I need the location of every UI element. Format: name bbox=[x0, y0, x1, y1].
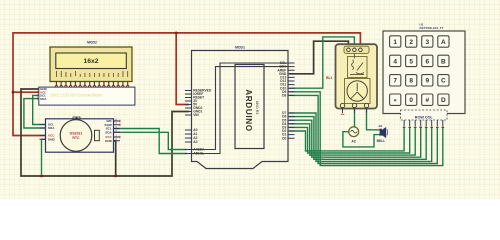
svg-text:A: A bbox=[441, 39, 446, 46]
svg-text:BELL: BELL bbox=[377, 139, 386, 143]
svg-text:0: 0 bbox=[409, 97, 413, 104]
svg-text:2: 2 bbox=[409, 39, 413, 46]
svg-text:5: 5 bbox=[409, 58, 413, 65]
svg-text:RTC: RTC bbox=[72, 136, 80, 140]
svg-text:KEYPAD-4X4_TT: KEYPAD-4X4_TT bbox=[420, 26, 444, 30]
svg-text:MOD1: MOD1 bbox=[235, 45, 245, 49]
svg-text:GND: GND bbox=[48, 138, 56, 142]
svg-text:B: B bbox=[441, 58, 446, 65]
svg-text:GND: GND bbox=[105, 139, 113, 143]
svg-text:6: 6 bbox=[425, 58, 429, 65]
svg-text:AC: AC bbox=[351, 140, 356, 144]
svg-text:SDA: SDA bbox=[48, 126, 55, 130]
svg-text:3: 3 bbox=[425, 39, 429, 46]
svg-text:ROW COL: ROW COL bbox=[415, 115, 434, 119]
svg-text:SDA: SDA bbox=[40, 97, 47, 101]
svg-text:8: 8 bbox=[409, 78, 413, 85]
svg-text:16x2: 16x2 bbox=[83, 58, 98, 65]
svg-text:C: C bbox=[441, 78, 446, 85]
svg-text:D8: D8 bbox=[282, 94, 286, 98]
svg-text:DS3231: DS3231 bbox=[70, 132, 83, 136]
svg-text:B1: B1 bbox=[379, 124, 383, 128]
svg-text:ARDUINO: ARDUINO bbox=[244, 89, 253, 131]
svg-text:A5SCL: A5SCL bbox=[193, 152, 204, 156]
svg-text:RL1: RL1 bbox=[326, 76, 333, 80]
svg-text:1: 1 bbox=[393, 39, 397, 46]
svg-text:4: 4 bbox=[393, 58, 397, 65]
svg-text:D0: D0 bbox=[282, 136, 286, 140]
svg-text:7: 7 bbox=[393, 78, 397, 85]
svg-text:16x2 LCD i2c Connections: 16x2 LCD i2c Connections bbox=[50, 93, 103, 98]
svg-text:D: D bbox=[441, 97, 446, 104]
svg-text:VIN: VIN bbox=[193, 113, 199, 117]
svg-text:A3: A3 bbox=[193, 140, 197, 144]
svg-text:MOD2: MOD2 bbox=[87, 41, 97, 45]
svg-text:SDA: SDA bbox=[105, 131, 112, 135]
svg-text:UNO R3: UNO R3 bbox=[255, 101, 259, 115]
svg-text:9: 9 bbox=[425, 78, 429, 85]
svg-text:#: # bbox=[425, 97, 429, 104]
